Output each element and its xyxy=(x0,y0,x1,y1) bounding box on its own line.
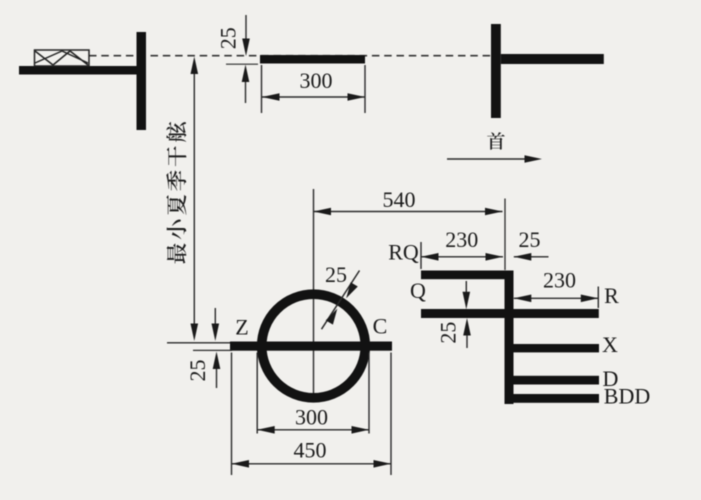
svg-text:230: 230 xyxy=(445,227,478,252)
svg-text:C: C xyxy=(373,314,388,339)
svg-text:25: 25 xyxy=(435,322,460,344)
svg-text:Q: Q xyxy=(410,278,426,303)
svg-text:25: 25 xyxy=(216,27,241,49)
svg-text:25: 25 xyxy=(325,262,347,287)
svg-text:300: 300 xyxy=(295,405,328,430)
svg-text:X: X xyxy=(602,332,618,357)
svg-text:230: 230 xyxy=(543,267,576,292)
svg-text:25: 25 xyxy=(519,227,541,252)
svg-text:Z: Z xyxy=(235,315,248,340)
svg-text:450: 450 xyxy=(294,438,327,463)
svg-text:R: R xyxy=(604,283,619,308)
svg-text:BDD: BDD xyxy=(604,384,650,409)
svg-text:RQ: RQ xyxy=(388,240,419,265)
svg-text:300: 300 xyxy=(300,68,333,93)
svg-text:25: 25 xyxy=(185,360,210,382)
svg-text:540: 540 xyxy=(383,187,416,212)
